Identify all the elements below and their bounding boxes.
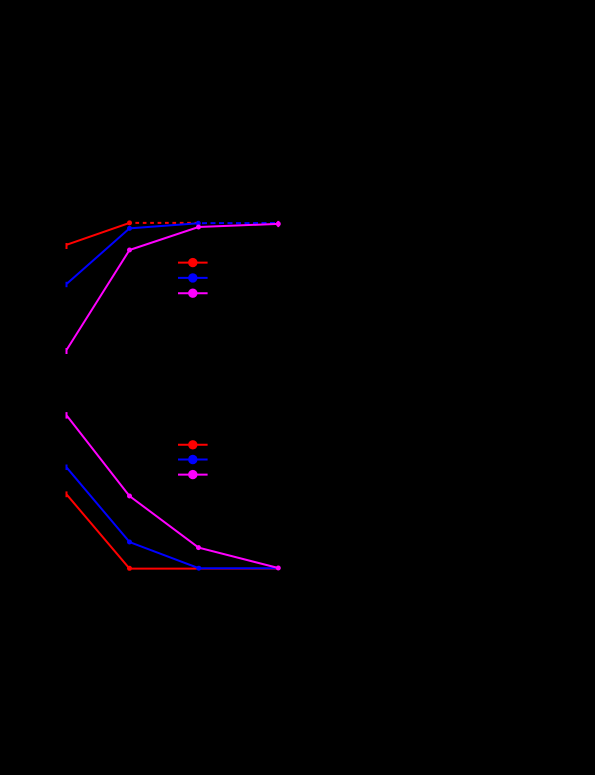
blue marker p3: [196, 221, 201, 226]
red error bar left bottom: [66, 491, 68, 497]
magenta marker bottom p2: [127, 494, 132, 499]
magenta error bar left: [66, 348, 68, 354]
magenta series solid: [67, 224, 279, 350]
blue series solid: [67, 223, 199, 284]
blue marker bottom p2: [127, 540, 132, 545]
blue error bar left bottom: [66, 465, 68, 471]
magenta marker bottom p4: [276, 566, 281, 571]
red series bottom: [67, 494, 279, 568]
magenta error bar left bottom: [66, 412, 68, 419]
red series dashed segment: [130, 222, 199, 224]
red marker p2: [127, 220, 132, 225]
blue series dashed: [198, 222, 278, 224]
blue error bar left: [66, 282, 68, 287]
magenta error bar right: [277, 221, 279, 227]
magenta marker p2: [127, 248, 132, 253]
red marker bottom p2: [127, 566, 132, 571]
red series solid segment: [67, 223, 130, 245]
magenta marker p4: [276, 221, 281, 226]
bottom legend red entry: [178, 440, 208, 449]
blue marker p2: [127, 226, 132, 231]
magenta series bottom: [67, 415, 279, 568]
blue marker bottom p3: [196, 566, 201, 571]
magenta marker p3: [196, 225, 201, 230]
top legend red entry: [178, 258, 208, 267]
magenta marker bottom p3: [196, 545, 201, 550]
red error bar left: [66, 243, 68, 249]
bottom legend magenta entry: [178, 470, 208, 479]
top legend magenta entry: [178, 289, 208, 298]
bottom legend blue entry: [178, 455, 208, 464]
blue series bottom: [67, 467, 279, 568]
top legend blue entry: [178, 273, 208, 282]
